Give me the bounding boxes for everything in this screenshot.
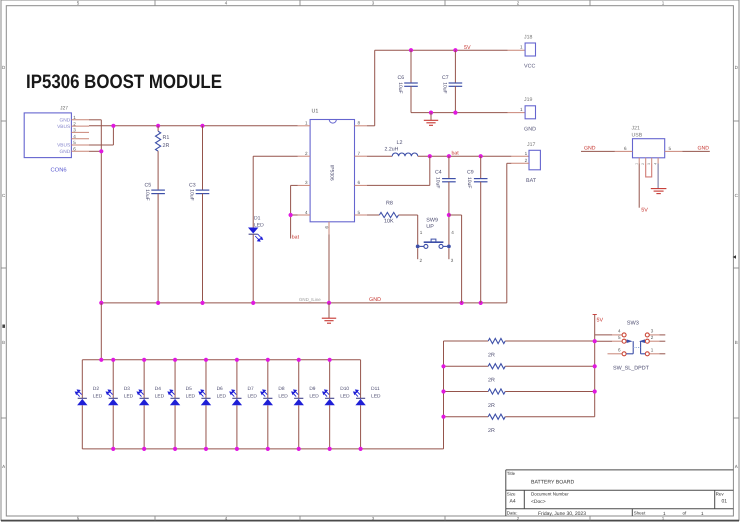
svg-text:01: 01 (722, 498, 728, 504)
svg-text:bat: bat (452, 151, 460, 157)
svg-text:U1: U1 (312, 109, 319, 115)
svg-text:2: 2 (525, 158, 528, 163)
svg-text:BAT: BAT (526, 178, 537, 184)
svg-text:3: 3 (651, 329, 654, 334)
svg-text:2R: 2R (488, 428, 495, 434)
svg-text:2R: 2R (163, 143, 170, 149)
svg-text:D11: D11 (371, 386, 380, 392)
svg-text:<Doc>: <Doc> (531, 499, 546, 505)
svg-text:D9: D9 (309, 386, 315, 392)
svg-text:GND_ILine: GND_ILine (299, 297, 321, 302)
svg-text:GND: GND (60, 149, 71, 155)
svg-text:LED: LED (155, 393, 165, 399)
svg-text:1: 1 (73, 115, 76, 120)
svg-text:LED: LED (371, 393, 381, 399)
svg-text:GND: GND (60, 118, 71, 124)
svg-text:LED: LED (309, 393, 319, 399)
svg-text:5V: 5V (464, 45, 471, 51)
svg-text:LED: LED (248, 393, 258, 399)
svg-text:6: 6 (624, 146, 627, 151)
svg-text:LED: LED (186, 393, 196, 399)
svg-text:SW_SL_DPDT: SW_SL_DPDT (613, 366, 650, 372)
svg-text:D7: D7 (248, 386, 254, 392)
svg-text:C5: C5 (145, 183, 152, 189)
svg-text:4: 4 (73, 134, 76, 139)
svg-text:1: 1 (635, 163, 639, 165)
svg-text:D1: D1 (254, 216, 261, 222)
svg-text:2: 2 (420, 258, 423, 263)
svg-text:Friday, June 30, 2023: Friday, June 30, 2023 (538, 511, 586, 517)
svg-text:J17: J17 (527, 142, 535, 148)
svg-text:D5: D5 (186, 386, 192, 392)
svg-text:UP: UP (426, 224, 434, 230)
svg-text:D2: D2 (93, 386, 99, 392)
svg-text:A: A (735, 464, 738, 469)
svg-text:GND: GND (524, 127, 536, 133)
svg-text:5: 5 (669, 146, 672, 151)
svg-text:CON6: CON6 (51, 167, 67, 174)
svg-text:J18: J18 (524, 35, 532, 41)
svg-text:C6: C6 (398, 75, 405, 81)
svg-text:GND: GND (698, 146, 710, 152)
svg-text:2R: 2R (488, 378, 495, 384)
svg-text:GND: GND (584, 146, 596, 152)
svg-text:D10: D10 (340, 386, 349, 392)
svg-text:R1: R1 (163, 135, 170, 141)
svg-text:Size: Size (507, 491, 516, 496)
svg-text:10uF: 10uF (397, 82, 403, 93)
svg-text:R8: R8 (386, 201, 393, 207)
svg-text:D6: D6 (217, 386, 223, 392)
svg-text:1: 1 (651, 348, 654, 353)
svg-text:Document Number: Document Number (531, 491, 569, 496)
svg-text:2R: 2R (488, 352, 495, 358)
svg-text:5: 5 (618, 335, 621, 340)
svg-text:VBUS: VBUS (57, 143, 70, 149)
svg-text:SW3: SW3 (627, 321, 639, 327)
svg-text:LED: LED (124, 393, 134, 399)
svg-text:4: 4 (305, 210, 308, 215)
svg-text:C7: C7 (442, 75, 449, 81)
svg-text:9: 9 (324, 226, 329, 229)
svg-text:VCC: VCC (524, 64, 535, 70)
svg-text:6: 6 (73, 147, 76, 152)
svg-text:1: 1 (305, 121, 308, 126)
svg-text:3: 3 (451, 258, 454, 263)
svg-text:10K: 10K (384, 219, 394, 225)
svg-text:4: 4 (654, 163, 658, 165)
svg-text:LED: LED (93, 393, 103, 399)
svg-text:10uF: 10uF (188, 189, 194, 200)
svg-text:10uF: 10uF (144, 189, 150, 200)
svg-text:J21: J21 (632, 126, 640, 132)
svg-text:bat: bat (292, 235, 300, 241)
svg-text:2: 2 (641, 163, 645, 165)
svg-text:6: 6 (358, 180, 361, 185)
svg-text:B: B (2, 340, 5, 345)
svg-text:2: 2 (651, 335, 654, 340)
svg-text:GND: GND (369, 297, 381, 303)
svg-text:LED: LED (254, 223, 264, 229)
svg-text:1: 1 (420, 230, 423, 235)
svg-text:Rev: Rev (716, 491, 725, 496)
svg-text:IP5306 BOOST MODULE: IP5306 BOOST MODULE (26, 71, 222, 93)
svg-text:2: 2 (305, 151, 308, 156)
svg-text:4: 4 (618, 329, 621, 334)
svg-text:1: 1 (520, 107, 523, 112)
svg-text:D4: D4 (155, 386, 161, 392)
svg-text:J19: J19 (524, 97, 532, 103)
svg-text:4: 4 (451, 230, 454, 235)
svg-text:10uF: 10uF (434, 177, 440, 188)
svg-text:10uF: 10uF (441, 82, 447, 93)
svg-text:J27: J27 (60, 105, 68, 111)
svg-text:2.2uH: 2.2uH (385, 147, 399, 153)
svg-text:A: A (2, 464, 5, 469)
svg-text:LED: LED (340, 393, 350, 399)
svg-text:B: B (735, 340, 738, 345)
svg-text:LED: LED (217, 393, 227, 399)
svg-text:C3: C3 (189, 183, 196, 189)
svg-text:L2: L2 (397, 140, 403, 146)
svg-text:3: 3 (647, 163, 651, 165)
svg-text:SW9: SW9 (426, 218, 438, 224)
svg-text:D3: D3 (124, 386, 130, 392)
svg-text:Sheet: Sheet (634, 511, 647, 516)
svg-text:IP5306: IP5306 (329, 165, 335, 181)
svg-text:LED: LED (278, 393, 288, 399)
svg-text:10uF: 10uF (466, 177, 472, 188)
svg-text:8: 8 (358, 121, 361, 126)
svg-text:Date:: Date: (507, 511, 518, 516)
svg-text:VBUS: VBUS (57, 124, 70, 130)
svg-text:1: 1 (525, 151, 528, 156)
svg-text:Title: Title (507, 471, 516, 476)
svg-text:D8: D8 (278, 386, 284, 392)
svg-text:A4: A4 (510, 498, 516, 504)
svg-text:BATTERY BOARD: BATTERY BOARD (531, 480, 574, 486)
svg-text:1: 1 (520, 45, 523, 50)
svg-text:C4: C4 (435, 170, 442, 176)
svg-text:6: 6 (618, 348, 621, 353)
svg-text:3: 3 (305, 180, 308, 185)
svg-text:2: 2 (73, 121, 76, 126)
svg-text:5: 5 (358, 210, 361, 215)
svg-text:USB: USB (632, 133, 643, 139)
svg-text:2R: 2R (488, 403, 495, 409)
svg-text:5V: 5V (641, 208, 648, 214)
svg-text:1: 1 (663, 511, 666, 516)
svg-text:5: 5 (73, 140, 76, 145)
svg-text:5V: 5V (597, 318, 604, 324)
svg-text:7: 7 (358, 151, 361, 156)
svg-text:3: 3 (73, 128, 76, 133)
svg-text:C9: C9 (467, 170, 474, 176)
svg-text:1: 1 (701, 511, 704, 516)
